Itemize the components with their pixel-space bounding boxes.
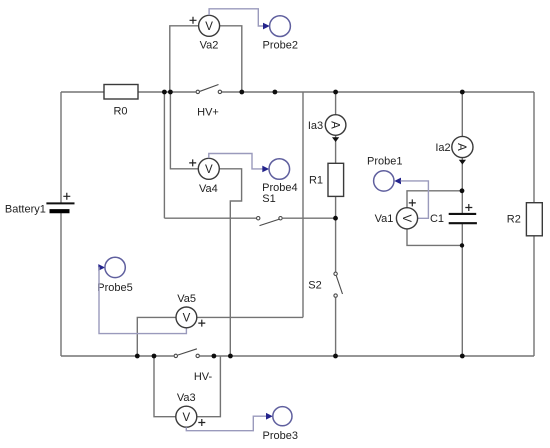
svg-text:Probe1: Probe1 bbox=[367, 156, 402, 168]
switch HV+ bbox=[196, 85, 221, 119]
voltmeter Va4 bbox=[189, 158, 219, 195]
ammeter Ia3 bbox=[308, 115, 346, 142]
svg-text:Va3: Va3 bbox=[177, 392, 196, 404]
svg-text:V: V bbox=[182, 412, 190, 424]
svg-text:Probe5: Probe5 bbox=[97, 282, 132, 294]
wire Va2 left lead bbox=[170, 26, 199, 92]
svg-text:Probe3: Probe3 bbox=[263, 430, 298, 442]
node top bus junction Ia2 bbox=[460, 90, 465, 95]
node bottom bus junction Va5 left bbox=[135, 354, 140, 359]
node top bus junction 1 bbox=[162, 90, 167, 95]
wire Va5 left lead bbox=[137, 317, 176, 356]
svg-text:R1: R1 bbox=[309, 175, 323, 187]
svg-text:R0: R0 bbox=[113, 106, 127, 118]
wire Va3 left lead bbox=[154, 356, 176, 417]
node top bus junction 2 bbox=[168, 90, 173, 95]
resistor R1 bbox=[309, 163, 344, 196]
switch HV- bbox=[174, 349, 212, 383]
svg-text:HV-: HV- bbox=[194, 371, 213, 383]
resistor R0 bbox=[104, 85, 138, 118]
svg-text:Va1: Va1 bbox=[375, 213, 394, 225]
wire Ia3 top lead bbox=[335, 92, 337, 115]
probe Probe4 bbox=[262, 159, 297, 194]
wire blue Va5 to Probe5 bbox=[99, 267, 187, 333]
svg-text:Ia2: Ia2 bbox=[435, 142, 450, 154]
svg-text:V: V bbox=[205, 21, 213, 33]
wire Va3 right lead bbox=[197, 356, 221, 417]
wire Va2 right lead bbox=[220, 26, 242, 92]
wire Ia2 top lead bbox=[461, 92, 463, 136]
svg-text:S1: S1 bbox=[262, 193, 275, 205]
voltmeter Va2 bbox=[190, 15, 220, 51]
svg-text:V: V bbox=[183, 313, 191, 325]
svg-text:R2: R2 bbox=[507, 214, 521, 226]
probe Probe2 bbox=[263, 16, 298, 52]
svg-text:A: A bbox=[328, 121, 340, 129]
switch S1 bbox=[257, 193, 283, 226]
svg-text:Va5: Va5 bbox=[177, 293, 196, 305]
svg-text:C1: C1 bbox=[430, 213, 444, 225]
svg-text:A: A bbox=[455, 143, 467, 151]
wire blue Probe1 to Va1 bbox=[401, 181, 429, 218]
wire vertical from top bus to Va5 right bbox=[302, 92, 304, 317]
ammeter Ia2 bbox=[435, 136, 473, 164]
svg-text:Battery1: Battery1 bbox=[5, 204, 46, 216]
node Va1 minus junction bbox=[460, 243, 464, 247]
wire S1 line right segment bbox=[283, 217, 336, 219]
svg-text:S2: S2 bbox=[308, 280, 321, 292]
node bottom bus junction Va3 right bbox=[212, 354, 217, 359]
wire left bus lower bbox=[60, 211, 62, 356]
wire right bus lower bbox=[533, 236, 535, 356]
wire Ia3 bottom lead to R1 bbox=[335, 135, 337, 163]
node Va1 plus junction bbox=[460, 188, 465, 193]
wire Va4 left lead bbox=[170, 92, 198, 169]
capacitor C1 bbox=[430, 204, 477, 225]
wire Va4 right lead with jog down to bottom bus bbox=[219, 169, 241, 356]
wire vertical from top bus to S1 line bbox=[163, 92, 165, 218]
svg-text:Ia3: Ia3 bbox=[308, 120, 323, 132]
svg-text:Probe2: Probe2 bbox=[263, 40, 298, 52]
node top bus junction mid bbox=[273, 90, 278, 95]
node top bus junction Va2 right bbox=[239, 90, 244, 95]
svg-text:Va2: Va2 bbox=[200, 40, 219, 52]
probe Probe3 bbox=[263, 407, 298, 442]
wire S1 junction to S2 top bbox=[335, 218, 337, 272]
probe Probe1 bbox=[367, 156, 402, 192]
node bottom bus junction C1 bbox=[460, 354, 465, 359]
node R1 bottom junction bbox=[333, 216, 338, 221]
resistor R2 bbox=[507, 203, 543, 236]
node bottom bus junction tall vertical bbox=[228, 354, 233, 359]
wire bottom bus left segment bbox=[61, 355, 174, 357]
switch S2 bbox=[308, 272, 342, 297]
wire right bus upper bbox=[533, 92, 535, 203]
wire S1 line left segment bbox=[164, 217, 256, 219]
wire top bus right segment bbox=[222, 91, 534, 93]
voltmeter Va3 bbox=[176, 392, 206, 427]
svg-text:HV+: HV+ bbox=[197, 107, 219, 119]
wire blue Va3 to Probe3 bbox=[186, 416, 266, 431]
wire blue Va2 to Probe2 bbox=[209, 9, 263, 26]
svg-text:V: V bbox=[205, 164, 213, 176]
wire Va1 minus lead bbox=[407, 229, 462, 246]
svg-text:Va4: Va4 bbox=[199, 183, 218, 195]
node bottom bus junction Va3 left bbox=[152, 354, 157, 359]
voltmeter Va1 bbox=[375, 199, 418, 229]
wire top bus middle segment bbox=[138, 91, 196, 93]
wire bottom bus right segment bbox=[200, 355, 534, 357]
wire Ia2 bottom lead to C1 bbox=[461, 158, 463, 213]
battery Battery1 bbox=[5, 193, 75, 216]
node top bus junction Ia3 bbox=[333, 90, 338, 95]
wire left bus upper bbox=[60, 92, 62, 203]
node bottom bus junction S2 bbox=[333, 354, 338, 359]
voltmeter Va5 bbox=[176, 293, 205, 328]
wire Va1 plus lead bbox=[407, 191, 462, 208]
svg-text:V: V bbox=[400, 214, 412, 222]
wire S2 bottom lead bbox=[335, 298, 337, 356]
wire top bus left segment bbox=[61, 91, 104, 93]
wire blue Va4 to Probe4 bbox=[209, 154, 263, 169]
wire R1 bottom lead bbox=[335, 196, 337, 218]
wire C1 bottom lead bbox=[461, 224, 463, 356]
probe Probe5 bbox=[97, 257, 132, 294]
wire Va5 right lead bbox=[197, 316, 303, 318]
